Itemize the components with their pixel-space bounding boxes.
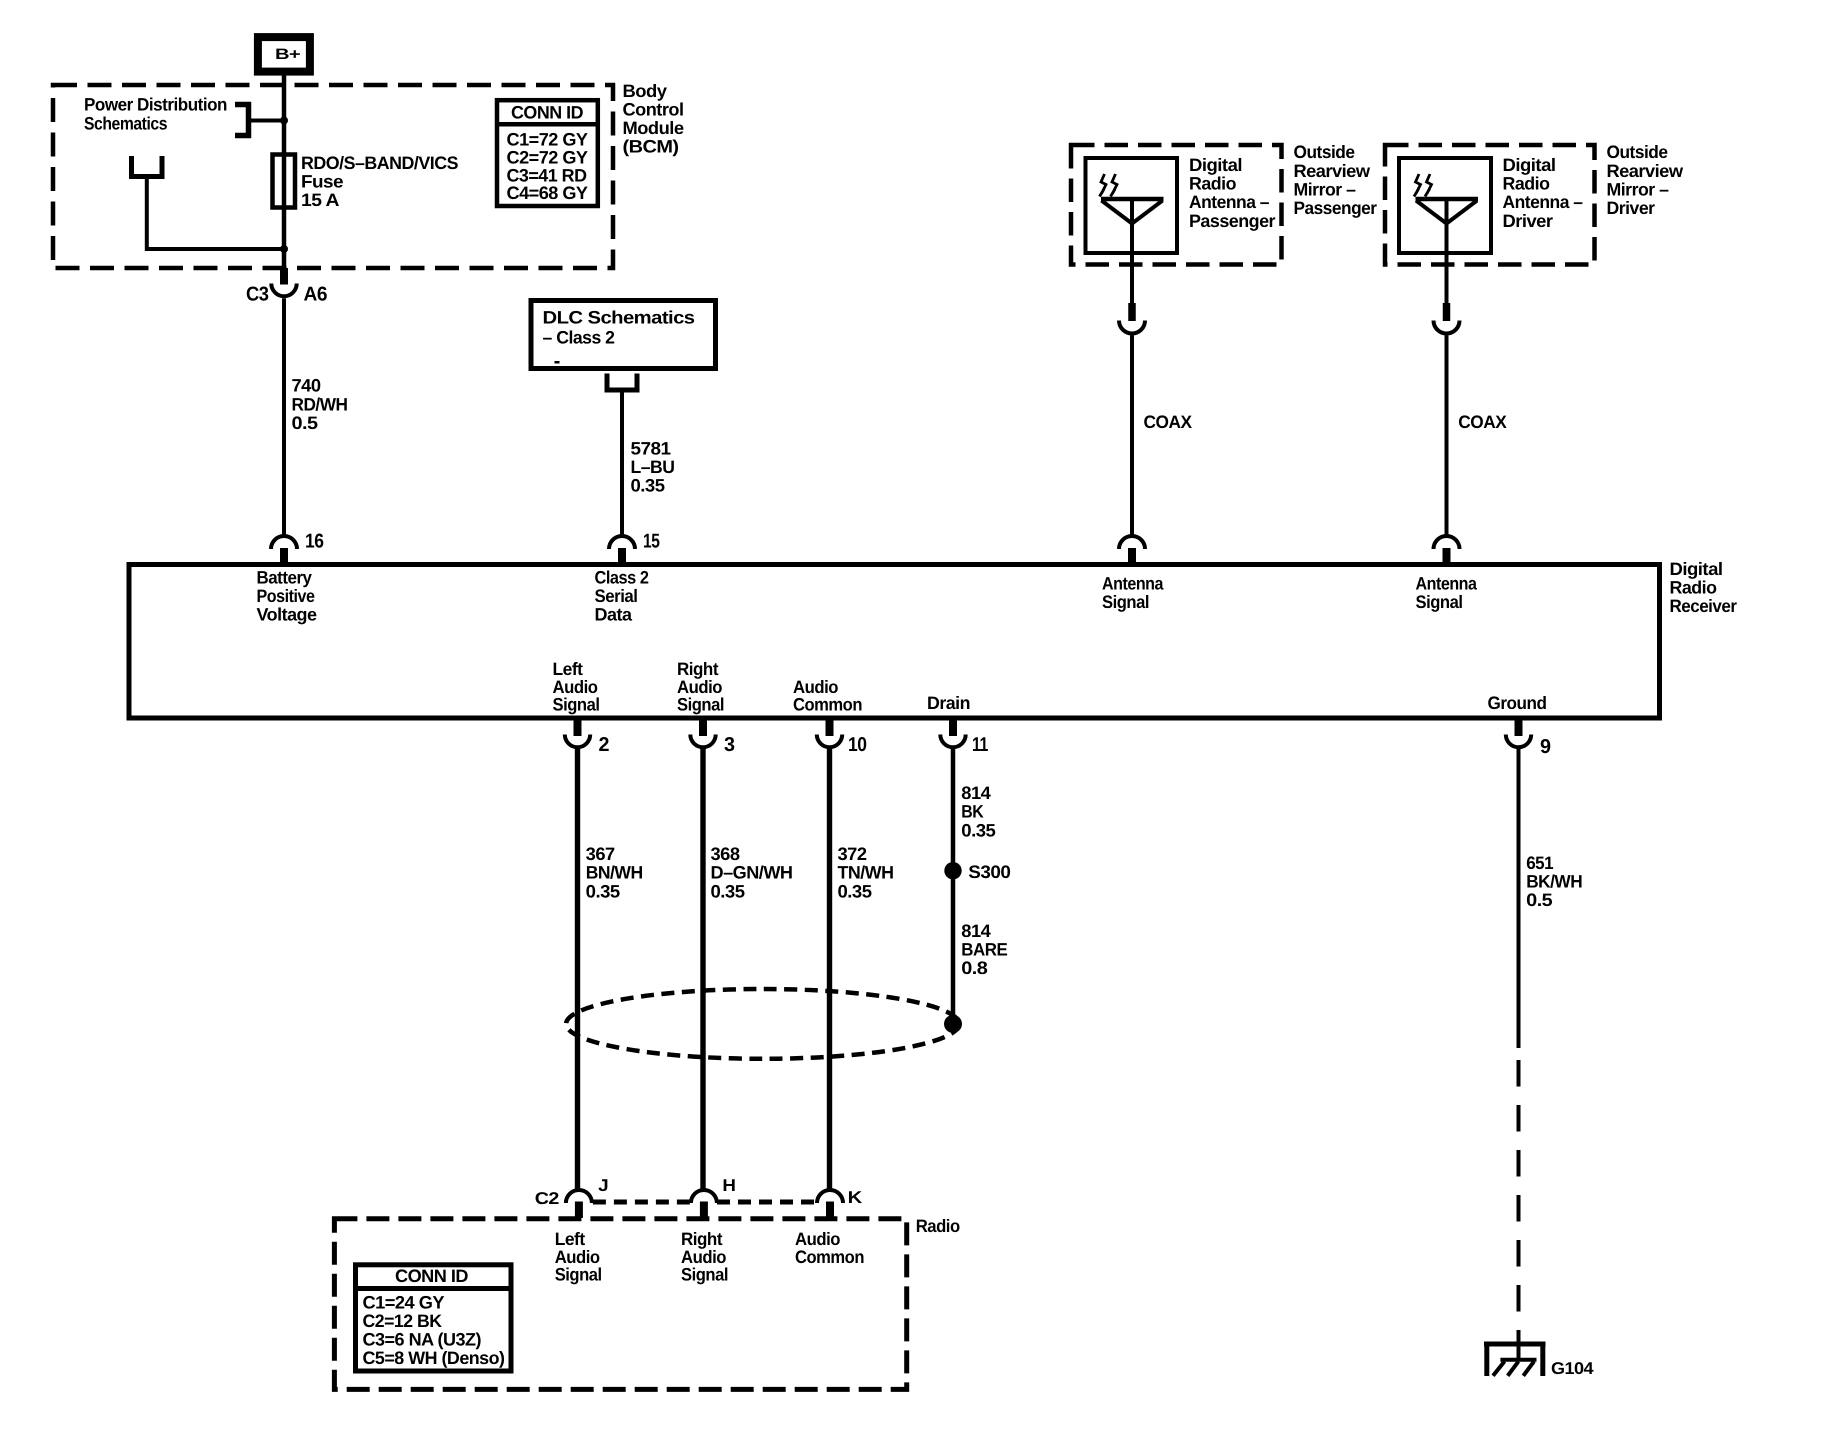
svg-text:C1=24 GY: C1=24 GY bbox=[363, 1293, 445, 1313]
svg-text:TN/WH: TN/WH bbox=[838, 863, 894, 883]
label Outside Rearview Mirror - Passenger bbox=[1294, 142, 1377, 218]
svg-text:Fuse: Fuse bbox=[301, 172, 344, 192]
svg-text:COAX: COAX bbox=[1144, 412, 1192, 432]
node junction on B+ feed upper bbox=[280, 117, 288, 125]
svg-text:Common: Common bbox=[793, 695, 862, 715]
svg-text:COAX: COAX bbox=[1458, 412, 1506, 432]
svg-text:Driver: Driver bbox=[1607, 198, 1655, 218]
wire 372 TN/WH 0.35 bbox=[830, 747, 894, 1190]
svg-text:Ground: Ground bbox=[1488, 693, 1547, 713]
svg-text:Power Distribution: Power Distribution bbox=[84, 95, 227, 115]
label Digital Radio Antenna - Driver bbox=[1503, 155, 1583, 231]
svg-text:Rearview: Rearview bbox=[1607, 161, 1685, 181]
antenna element passenger bbox=[1086, 158, 1178, 305]
svg-text:0.5: 0.5 bbox=[292, 413, 319, 433]
svg-text:DLC Schematics: DLC Schematics bbox=[543, 308, 696, 328]
pin 15 class 2 serial data bbox=[609, 531, 660, 564]
svg-text:Voltage: Voltage bbox=[257, 605, 317, 625]
svg-text:G104: G104 bbox=[1551, 1359, 1594, 1378]
svg-text:Antenna: Antenna bbox=[1102, 573, 1164, 593]
pin antenna signal driver bbox=[1434, 536, 1460, 563]
connector C2 pin J bbox=[535, 1176, 608, 1218]
wire 367 BN/WH 0.35 bbox=[578, 747, 643, 1190]
svg-text:K: K bbox=[848, 1188, 863, 1207]
svg-text:372: 372 bbox=[838, 844, 867, 864]
svg-text:CONN ID: CONN ID bbox=[395, 1266, 469, 1286]
svg-text:Radio: Radio bbox=[1189, 174, 1236, 194]
label Digital Radio Antenna - Passenger bbox=[1189, 155, 1275, 231]
label right audio signal (receiver) bbox=[677, 659, 724, 715]
label drain (receiver) bbox=[927, 693, 970, 713]
svg-text:CONN ID: CONN ID bbox=[511, 103, 583, 123]
svg-text:Left: Left bbox=[553, 659, 583, 679]
svg-text:15: 15 bbox=[643, 531, 660, 553]
label Outside Rearview Mirror - Driver bbox=[1607, 142, 1685, 218]
svg-text:RD/WH: RD/WH bbox=[292, 394, 348, 414]
svg-text:Class 2: Class 2 bbox=[595, 568, 649, 588]
CONN ID table BCM bbox=[495, 100, 600, 206]
bracket to Power Distribution bbox=[235, 105, 249, 136]
wire 814 BK 0.35 drain upper bbox=[953, 747, 996, 871]
label Body Control Module (BCM) bbox=[623, 81, 684, 157]
svg-text:Signal: Signal bbox=[1416, 592, 1463, 612]
svg-text:814: 814 bbox=[961, 921, 990, 941]
node drain to shield bbox=[944, 1015, 962, 1033]
svg-text:Outside: Outside bbox=[1294, 142, 1355, 162]
splice S300 bbox=[944, 862, 1011, 882]
pin antenna signal passenger bbox=[1119, 536, 1145, 563]
wire 651 BK/WH 0.5 bbox=[1519, 747, 1583, 1048]
svg-text:2: 2 bbox=[599, 734, 610, 756]
in-line connector passenger coax bbox=[1119, 303, 1145, 334]
label left audio signal (radio) bbox=[555, 1229, 602, 1285]
svg-text:C2: C2 bbox=[535, 1189, 559, 1208]
svg-text:0.8: 0.8 bbox=[961, 958, 988, 978]
label digital radio receiver bbox=[1670, 559, 1737, 616]
svg-text:Signal: Signal bbox=[677, 695, 724, 715]
svg-text:Mirror –: Mirror – bbox=[1607, 179, 1669, 199]
svg-text:0.35: 0.35 bbox=[586, 881, 620, 901]
wire 814 BARE 0.8 drain lower bbox=[953, 871, 1008, 1024]
label battery positive voltage bbox=[257, 568, 317, 625]
pin 2 left audio signal bbox=[565, 718, 610, 756]
label left audio signal (receiver) bbox=[553, 659, 600, 715]
CONN ID table radio bbox=[353, 1265, 514, 1371]
svg-text:367: 367 bbox=[586, 844, 615, 864]
wire B+ vertical feed bbox=[282, 74, 287, 268]
svg-text:L–BU: L–BU bbox=[631, 457, 675, 477]
svg-text:0.35: 0.35 bbox=[631, 476, 665, 496]
connector C2 pin K bbox=[817, 1188, 863, 1218]
svg-text:Signal: Signal bbox=[681, 1265, 728, 1285]
svg-text:Schematics: Schematics bbox=[84, 114, 167, 134]
svg-text:A6: A6 bbox=[304, 284, 328, 306]
pin 9 ground bbox=[1506, 718, 1551, 758]
svg-text:Signal: Signal bbox=[555, 1265, 602, 1285]
wire COAX passenger bbox=[1132, 335, 1192, 536]
pin 10 audio common bbox=[817, 718, 867, 756]
label antenna signal passenger bbox=[1102, 573, 1164, 612]
svg-text:Antenna –: Antenna – bbox=[1503, 192, 1583, 212]
svg-text:Common: Common bbox=[795, 1247, 864, 1267]
svg-text:RDO/S–BAND/VICS: RDO/S–BAND/VICS bbox=[301, 153, 458, 173]
svg-text:C1=72 GY: C1=72 GY bbox=[507, 130, 588, 150]
connector C2 pin H bbox=[691, 1176, 736, 1218]
circuit-continues tab (DLC) bbox=[607, 374, 637, 391]
pin 16 battery positive voltage bbox=[271, 531, 324, 564]
wire ground dashed continuation bbox=[1517, 1060, 1521, 1352]
svg-text:J: J bbox=[598, 1176, 608, 1195]
label Power Distribution Schematics bbox=[84, 95, 227, 134]
svg-text:BK/WH: BK/WH bbox=[1526, 872, 1582, 892]
svg-text:B+: B+ bbox=[275, 46, 301, 63]
svg-text:Digital: Digital bbox=[1503, 155, 1556, 175]
svg-text:Mirror –: Mirror – bbox=[1294, 179, 1356, 199]
svg-text:C3=6 NA (U3Z): C3=6 NA (U3Z) bbox=[363, 1330, 482, 1350]
label right audio signal (radio) bbox=[681, 1229, 728, 1285]
wire COAX driver bbox=[1447, 335, 1507, 536]
svg-text:Antenna: Antenna bbox=[1416, 573, 1478, 593]
svg-text:C2=12 BK: C2=12 BK bbox=[363, 1311, 442, 1331]
svg-text:Radio: Radio bbox=[1670, 577, 1717, 597]
label audio common (radio) bbox=[795, 1229, 864, 1267]
svg-text:368: 368 bbox=[711, 844, 740, 864]
svg-text:C2=72 GY: C2=72 GY bbox=[507, 148, 588, 168]
svg-text:(BCM): (BCM) bbox=[623, 137, 680, 157]
digital radio antenna driver dashed outline bbox=[1385, 145, 1595, 265]
DLC Schematics reference box bbox=[531, 301, 716, 369]
svg-text:Receiver: Receiver bbox=[1670, 596, 1737, 616]
svg-text:Module: Module bbox=[623, 118, 684, 138]
svg-text:814: 814 bbox=[961, 783, 990, 803]
svg-text:Digital: Digital bbox=[1189, 155, 1242, 175]
node junction on B+ feed lower bbox=[280, 245, 288, 253]
svg-text:Battery: Battery bbox=[257, 568, 312, 588]
circuit-continues tab (power distribution) bbox=[132, 156, 163, 177]
svg-text:0.35: 0.35 bbox=[711, 881, 745, 901]
svg-text:– Class 2: – Class 2 bbox=[543, 328, 615, 348]
svg-text:BK: BK bbox=[961, 802, 983, 822]
pin 3 right audio signal bbox=[690, 718, 735, 756]
svg-text:Radio: Radio bbox=[916, 1216, 960, 1236]
svg-text:Antenna –: Antenna – bbox=[1189, 192, 1269, 212]
svg-text:D–GN/WH: D–GN/WH bbox=[711, 863, 793, 883]
battery positive terminal B+ bbox=[258, 37, 310, 72]
svg-text:C5=8 WH (Denso): C5=8 WH (Denso) bbox=[363, 1348, 505, 1368]
fuse RDO/S-BAND/VICS 15 A bbox=[273, 155, 296, 208]
svg-text:BN/WH: BN/WH bbox=[586, 863, 643, 883]
svg-text:Signal: Signal bbox=[553, 695, 600, 715]
svg-text:Positive: Positive bbox=[257, 586, 315, 606]
svg-text:16: 16 bbox=[305, 531, 324, 553]
fuse value label bbox=[301, 153, 458, 210]
svg-text:Serial: Serial bbox=[595, 586, 638, 606]
digital radio receiver box U1 bbox=[129, 565, 1660, 719]
svg-text:0.5: 0.5 bbox=[1526, 890, 1553, 910]
shield ellipse (twisted shielded cable) bbox=[566, 989, 959, 1059]
antenna element driver bbox=[1399, 158, 1491, 305]
connector C3 pin A6 (in-line) bbox=[246, 268, 327, 306]
svg-text:Signal: Signal bbox=[1102, 592, 1149, 612]
dashed connector line H-K bbox=[717, 1200, 816, 1205]
svg-text:Right: Right bbox=[677, 659, 718, 679]
svg-text:C4=68 GY: C4=68 GY bbox=[507, 183, 588, 203]
svg-text:0.35: 0.35 bbox=[961, 820, 995, 840]
label antenna signal driver bbox=[1416, 573, 1478, 612]
svg-text:5781: 5781 bbox=[631, 439, 672, 459]
svg-text:Control: Control bbox=[623, 99, 684, 119]
svg-text:BARE: BARE bbox=[961, 940, 1007, 960]
svg-text:Data: Data bbox=[595, 605, 633, 625]
svg-text:C3: C3 bbox=[246, 284, 269, 306]
svg-text:15 A: 15 A bbox=[301, 190, 340, 210]
svg-text:0.35: 0.35 bbox=[838, 881, 872, 901]
svg-text:Radio: Radio bbox=[1503, 174, 1550, 194]
wire bracket to B+ feed bbox=[249, 119, 285, 123]
svg-text:9: 9 bbox=[1540, 736, 1551, 758]
svg-text:3: 3 bbox=[724, 734, 735, 756]
label class 2 serial data bbox=[595, 568, 649, 625]
dashed connector line J-H bbox=[593, 1200, 690, 1205]
wire 368 D-GN/WH 0.35 bbox=[703, 747, 793, 1190]
svg-text:11: 11 bbox=[972, 734, 988, 756]
in-line connector driver coax bbox=[1434, 303, 1460, 334]
ground G104 bbox=[1484, 1342, 1594, 1378]
svg-text:S300: S300 bbox=[968, 862, 1011, 882]
svg-text:Outside: Outside bbox=[1607, 142, 1668, 162]
svg-text:740: 740 bbox=[292, 376, 321, 396]
svg-text:Passenger: Passenger bbox=[1189, 211, 1275, 231]
svg-text:Rearview: Rearview bbox=[1294, 161, 1372, 181]
wire 5781 L-BU 0.35 bbox=[622, 390, 675, 536]
digital radio antenna passenger dashed outline bbox=[1071, 145, 1282, 265]
svg-text:Passenger: Passenger bbox=[1294, 198, 1377, 218]
svg-text:Driver: Driver bbox=[1503, 211, 1554, 231]
svg-text:10: 10 bbox=[848, 734, 867, 756]
svg-text:Body: Body bbox=[623, 81, 668, 101]
label ground (receiver) bbox=[1488, 693, 1547, 713]
wire 740 RD/WH 0.5 bbox=[284, 298, 348, 536]
label audio common (receiver) bbox=[793, 677, 862, 715]
svg-text:651: 651 bbox=[1526, 853, 1553, 873]
BCM dashed outline (Body Control Module) bbox=[53, 85, 613, 268]
svg-text:H: H bbox=[722, 1176, 735, 1195]
wire tab to B+ feed lower bbox=[147, 177, 284, 250]
pin 11 drain bbox=[940, 718, 988, 756]
svg-text:Digital: Digital bbox=[1670, 559, 1723, 579]
svg-text:Drain: Drain bbox=[927, 693, 970, 713]
radio dashed outline bbox=[334, 1216, 960, 1389]
